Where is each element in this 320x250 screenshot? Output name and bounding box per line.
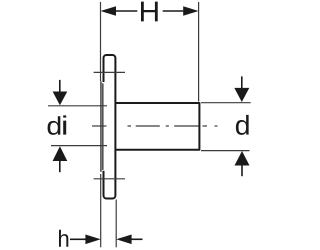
wire H dimension line left segment bbox=[116, 10, 138, 12]
wire h left stem bbox=[70, 238, 86, 240]
wire d top extension line bbox=[201, 102, 251, 104]
node label d bbox=[236, 115, 249, 135]
node H right arrow bbox=[183, 6, 198, 16]
collar bead inner line bbox=[102, 84, 104, 170]
node label H bbox=[141, 2, 158, 22]
node di bottom arrow bbox=[59, 161, 61, 173]
node d top arrow bbox=[241, 76, 243, 88]
node di top arrow bbox=[59, 80, 61, 92]
wire di top extension line bbox=[48, 105, 107, 107]
wire centerline dash segments bbox=[92, 125, 218, 127]
wire h left extension line bbox=[100, 174, 102, 247]
node h left arrow bbox=[85, 235, 100, 245]
collar bead outer line bbox=[100, 82, 102, 171]
socket body outline bbox=[115, 103, 199, 150]
wire H right extension line bbox=[198, 2, 200, 102]
node label h bbox=[59, 230, 68, 247]
node label di bbox=[48, 116, 61, 135]
wire H left extension line bbox=[100, 2, 102, 81]
wire lower crossing line bbox=[94, 178, 125, 180]
wire h right extension line bbox=[115, 200, 117, 248]
flange plate outline bbox=[104, 55, 116, 199]
wire h right stem bbox=[131, 238, 142, 240]
node h right arrow bbox=[116, 235, 131, 245]
wire di bottom extension line bbox=[51, 145, 107, 147]
node d bottom arrow bbox=[241, 165, 243, 176]
collar bead white cover over flange edge bbox=[102, 82, 105, 171]
wire d bottom extension line bbox=[201, 150, 250, 152]
wire upper crossing line bbox=[94, 71, 125, 73]
wire H dimension line right segment bbox=[163, 10, 184, 12]
node H left arrow bbox=[101, 6, 117, 16]
